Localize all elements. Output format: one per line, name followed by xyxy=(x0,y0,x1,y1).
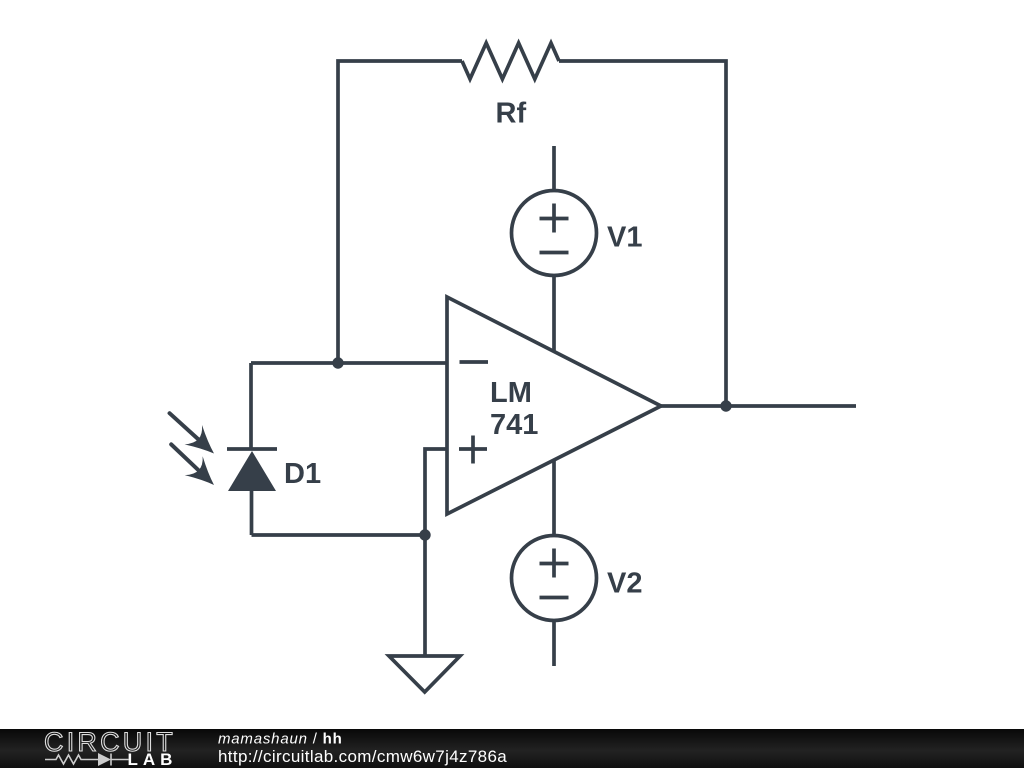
svg-text:http://circuitlab.com/cmw6w7j4: http://circuitlab.com/cmw6w7j4z786a xyxy=(218,747,507,766)
svg-text:Rf: Rf xyxy=(496,98,527,130)
svg-text:LAB: LAB xyxy=(128,750,178,768)
svg-text:V2: V2 xyxy=(607,568,642,600)
svg-text:LM: LM xyxy=(490,377,532,409)
svg-text:mamashaun / hh: mamashaun / hh xyxy=(218,731,343,748)
svg-text:741: 741 xyxy=(490,409,538,441)
svg-text:D1: D1 xyxy=(284,458,321,490)
svg-text:V1: V1 xyxy=(607,222,642,254)
